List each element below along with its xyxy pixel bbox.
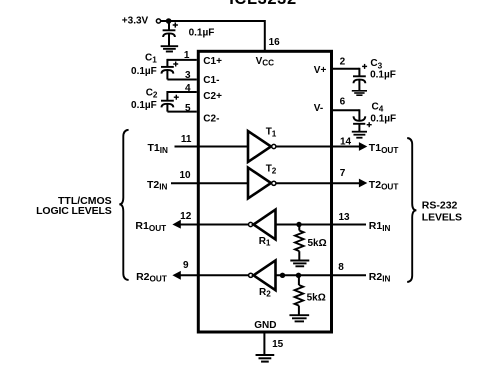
svg-text:9: 9 xyxy=(183,260,189,271)
svg-text:C1: C1 xyxy=(145,52,157,64)
svg-text:+3.3V: +3.3V xyxy=(122,16,149,27)
svg-text:T1IN: T1IN xyxy=(148,142,169,155)
svg-text:8: 8 xyxy=(338,262,344,273)
svg-text:6: 6 xyxy=(340,96,346,107)
svg-text:5kΩ: 5kΩ xyxy=(307,293,326,304)
svg-text:R1IN: R1IN xyxy=(369,220,391,233)
svg-text:R1OUT: R1OUT xyxy=(135,220,166,233)
svg-text:2: 2 xyxy=(340,56,346,67)
svg-text:1: 1 xyxy=(184,50,190,61)
svg-text:V+: V+ xyxy=(314,65,327,76)
svg-text:RS-232: RS-232 xyxy=(422,200,458,212)
svg-text:T1OUT: T1OUT xyxy=(369,142,399,155)
svg-text:0.1µF: 0.1µF xyxy=(370,114,396,125)
svg-text:5: 5 xyxy=(185,103,191,114)
svg-text:R1: R1 xyxy=(259,236,271,248)
svg-text:0.1µF: 0.1µF xyxy=(189,27,215,38)
svg-text:11: 11 xyxy=(181,134,192,145)
svg-text:T1: T1 xyxy=(266,127,277,139)
svg-text:15: 15 xyxy=(272,339,284,350)
svg-text:C1+: C1+ xyxy=(203,56,222,67)
svg-text:C2: C2 xyxy=(146,88,158,100)
svg-text:C1-: C1- xyxy=(203,75,219,86)
svg-text:T2IN: T2IN xyxy=(147,179,168,192)
svg-text:GND: GND xyxy=(254,320,276,331)
svg-text:V-: V- xyxy=(314,103,323,114)
svg-text:5kΩ: 5kΩ xyxy=(308,238,327,249)
svg-text:C2+: C2+ xyxy=(203,91,222,102)
svg-text:R2IN: R2IN xyxy=(369,271,391,284)
svg-text:0.1µF: 0.1µF xyxy=(131,66,157,77)
svg-text:14: 14 xyxy=(340,137,352,148)
svg-text:R2OUT: R2OUT xyxy=(136,271,167,284)
svg-text:T2OUT: T2OUT xyxy=(369,179,399,192)
svg-text:0.1µF: 0.1µF xyxy=(370,69,396,80)
svg-text:ICL3232: ICL3232 xyxy=(229,0,297,8)
svg-text:7: 7 xyxy=(340,168,346,179)
svg-text:10: 10 xyxy=(179,170,191,181)
svg-text:0.1µF: 0.1µF xyxy=(131,100,157,111)
svg-text:12: 12 xyxy=(180,211,192,222)
svg-text:C2-: C2- xyxy=(203,113,219,124)
svg-text:LOGIC LEVELS: LOGIC LEVELS xyxy=(36,205,112,217)
svg-text:C4: C4 xyxy=(372,102,384,114)
svg-text:16: 16 xyxy=(269,37,281,48)
svg-text:13: 13 xyxy=(339,212,351,223)
svg-text:VCC: VCC xyxy=(256,56,275,68)
svg-text:4: 4 xyxy=(185,83,191,94)
svg-text:T2: T2 xyxy=(266,164,277,176)
svg-text:LEVELS: LEVELS xyxy=(422,212,462,224)
svg-text:3: 3 xyxy=(185,70,191,81)
svg-text:R2: R2 xyxy=(259,287,271,299)
